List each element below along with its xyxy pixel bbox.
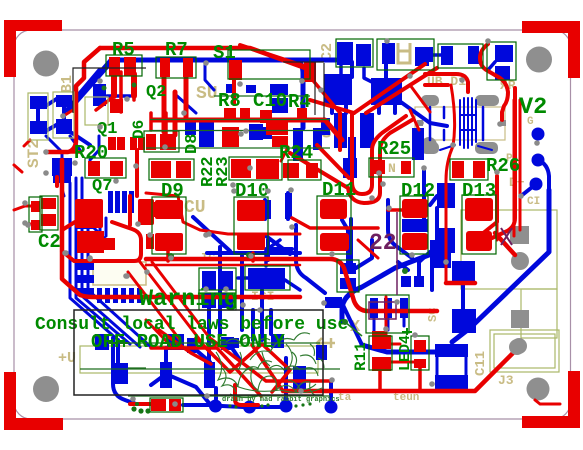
capacitor C2cap pads bbox=[337, 42, 353, 65]
wire red top-left J1 bbox=[24, 108, 76, 146]
pads R24 red bbox=[283, 163, 292, 178]
silk cross pads bbox=[108, 328, 412, 347]
wire blue fan Q1 bbox=[46, 136, 99, 176]
wire U5 blue bbox=[433, 55, 495, 70]
outline R26 bbox=[450, 159, 488, 180]
svg-text:R20: R20 bbox=[74, 142, 108, 164]
gray circle right bbox=[511, 252, 529, 270]
svg-text:C11: C11 bbox=[473, 351, 489, 376]
pads red row2 bbox=[222, 127, 239, 147]
outline D1 bbox=[377, 39, 434, 70]
IC U6 centre bundle blue bbox=[440, 98, 492, 150]
mounting hole bottom-left bbox=[33, 376, 59, 402]
svg-text:N: N bbox=[388, 161, 396, 176]
wire red left drop bbox=[46, 48, 100, 152]
blue bars U8 left bbox=[340, 263, 356, 274]
wire R11-LED4 link bbox=[390, 344, 414, 362]
wire red zigzag bottom bbox=[151, 330, 332, 396]
outline D9 tall bbox=[152, 197, 186, 254]
wire red step D9-D10 bbox=[146, 193, 300, 234]
pad red small Q9 bbox=[372, 331, 386, 338]
diode D12 pad bbox=[402, 199, 428, 218]
svg-text:V2: V2 bbox=[519, 94, 547, 121]
wire R5 stubs bbox=[114, 74, 134, 96]
outline C2 bbox=[29, 197, 42, 232]
wire Q7 red vertical bbox=[62, 160, 300, 297]
gray pads U6 ovals bbox=[421, 95, 439, 106]
keepout box right big bbox=[461, 210, 557, 289]
label KJ tan bbox=[317, 338, 335, 348]
pad Q7 big bbox=[75, 199, 103, 228]
connector J3 boxes bbox=[490, 330, 559, 372]
svg-text:Q2: Q2 bbox=[146, 83, 166, 102]
svg-text:C10: C10 bbox=[253, 90, 287, 112]
svg-text:C2: C2 bbox=[38, 231, 61, 253]
pad D12 blue bbox=[437, 183, 455, 208]
wire S01 red bbox=[130, 385, 258, 405]
pads Q7 red bbox=[41, 198, 56, 209]
wire blue stub C2cap bbox=[341, 66, 372, 82]
label U glyph D1 bbox=[398, 43, 410, 63]
svg-text:SU: SU bbox=[196, 84, 218, 104]
wire red D11-D12 link bbox=[292, 210, 403, 228]
wire C3 links bbox=[332, 62, 447, 126]
wire R20 feed bbox=[46, 150, 80, 154]
outline R5 bbox=[106, 55, 142, 76]
wire blue bottom-left drop bbox=[113, 338, 136, 404]
keepout box warn bbox=[80, 346, 318, 373]
silk art sketch bbox=[216, 333, 324, 398]
svg-text:Q7: Q7 bbox=[92, 177, 112, 196]
silk lines component rows bbox=[146, 96, 330, 148]
resistor R11 pads bbox=[372, 335, 391, 349]
mounting hole bottom-right bbox=[527, 378, 550, 401]
outline D13 tall bbox=[462, 195, 496, 254]
wire TP3 stub bbox=[521, 184, 536, 196]
connector J1 pads top-left bbox=[30, 96, 47, 109]
svg-text:D11: D11 bbox=[322, 179, 356, 201]
pads left mid connector bbox=[52, 158, 72, 176]
resistor R20 pads bbox=[88, 161, 100, 176]
switch S1 pads bbox=[229, 60, 242, 80]
svg-text:J3: J3 bbox=[498, 373, 514, 388]
wire U5 red bbox=[425, 44, 508, 120]
pad blue bottom-right bbox=[452, 309, 476, 333]
mounting hole top-left bbox=[33, 51, 59, 77]
pads D9 red bbox=[231, 159, 251, 178]
wire red bus mid bbox=[152, 120, 342, 140]
pads D8 region blue bbox=[199, 119, 214, 147]
outline IC2 bbox=[199, 268, 236, 293]
via cluster bbox=[97, 78, 103, 84]
pad C4 red big bbox=[77, 231, 104, 253]
wire red link R24 bbox=[281, 147, 288, 161]
pads R13 red pair bbox=[146, 134, 156, 150]
outline D10 tall bbox=[234, 197, 268, 254]
silk art baseline bbox=[80, 369, 340, 396]
wire S1 drop bbox=[234, 45, 304, 104]
svg-text:R23: R23 bbox=[214, 156, 233, 187]
wire blue mid risers bbox=[118, 219, 362, 366]
outline R14 bbox=[149, 159, 194, 180]
outline R20 bbox=[85, 158, 126, 178]
svg-text:OFF ROAD USE ONLY: OFF ROAD USE ONLY bbox=[91, 331, 285, 353]
purple box Q9 bbox=[369, 302, 396, 319]
IC U3 left pins bbox=[76, 221, 94, 229]
resistor R25 pads bbox=[372, 160, 385, 174]
svg-text:R26: R26 bbox=[486, 155, 520, 177]
blue bars row mid bbox=[293, 128, 303, 161]
corner mark bottom-right bbox=[522, 371, 580, 428]
black outline top-left bbox=[73, 68, 146, 113]
wire red main top bbox=[100, 48, 305, 68]
diode D11 pad bbox=[320, 199, 347, 219]
IC body U3 tan outline bbox=[93, 262, 146, 285]
wire red mid drop bbox=[311, 78, 340, 113]
corner mark bottom-left bbox=[4, 372, 63, 430]
wire R7 blue diag bbox=[176, 62, 214, 113]
pad C4 bump bbox=[100, 238, 115, 250]
wire blue LED feed bbox=[362, 345, 437, 352]
outline LED4 bbox=[411, 336, 429, 370]
outline Q7 pads bbox=[40, 196, 58, 230]
svg-text:R4: R4 bbox=[288, 91, 311, 113]
pads Q2 region blue bbox=[270, 84, 288, 95]
pad red left edge bbox=[146, 202, 155, 217]
wire red hairpin mid bbox=[352, 113, 406, 194]
capacitor C2 pads bbox=[31, 201, 40, 212]
svg-text:teun: teun bbox=[393, 392, 419, 404]
pads mid red squares bbox=[320, 233, 349, 251]
wire TP2 stub bbox=[538, 160, 549, 190]
testpoint TP2 bbox=[532, 154, 545, 167]
svg-text:D12: D12 bbox=[401, 180, 435, 202]
resistor R7 pads bbox=[160, 58, 170, 77]
blue rect under R20 bbox=[53, 171, 71, 183]
wire red loop inner bbox=[57, 177, 141, 261]
pads under bus blue bbox=[185, 121, 196, 135]
svg-text:R25: R25 bbox=[377, 138, 411, 160]
wire red LED4 drops bbox=[380, 368, 420, 391]
outline S01 bbox=[150, 398, 183, 412]
pads R14 red pair bbox=[151, 161, 171, 178]
through-hole pad row bottom bbox=[209, 400, 222, 413]
outline R7 bbox=[156, 57, 196, 78]
pads IC2 cluster 2x2 bbox=[202, 271, 216, 290]
outline R25 bbox=[369, 158, 414, 177]
wire red Q9 stub bbox=[385, 297, 388, 338]
resistor R5 pads bbox=[109, 57, 120, 76]
wire red top drop mid bbox=[151, 113, 166, 134]
transistor Q9 pads bbox=[370, 298, 378, 318]
diode D1 pads bbox=[382, 43, 395, 64]
svg-text:R8: R8 bbox=[218, 90, 241, 112]
wire R7 stubs bbox=[164, 77, 186, 135]
wire red left-edge drop bbox=[14, 165, 25, 210]
LED4 pads bbox=[414, 340, 426, 352]
diode D9 pads big bbox=[155, 200, 183, 219]
svg-text:R24: R24 bbox=[279, 142, 313, 164]
outline C2cap bbox=[336, 39, 373, 67]
wire Q9 stubs bbox=[374, 318, 404, 333]
outline U8 bars bbox=[337, 260, 359, 292]
wire C2 stubs bbox=[25, 206, 31, 224]
pads warning-box blue bbox=[95, 334, 109, 350]
testpoint TP3 bbox=[530, 178, 543, 191]
capacitor C3 pads big blue bbox=[324, 74, 352, 105]
outline J1 bbox=[28, 93, 48, 140]
pad Q1 top bbox=[110, 99, 123, 113]
outline IC7 bbox=[245, 266, 290, 290]
outline R24 bbox=[288, 160, 321, 180]
wire red loop left bbox=[62, 150, 137, 230]
mounting hole top-right bbox=[526, 47, 552, 73]
wire red diagonals C3 bbox=[310, 64, 437, 113]
svg-text:Warning: Warning bbox=[139, 286, 238, 313]
keepout box right mid bbox=[521, 289, 557, 338]
black outline C2cap bbox=[283, 62, 324, 118]
IC U3 pins blue mid-left bbox=[108, 191, 113, 213]
diode D13 pad bbox=[465, 198, 493, 221]
svg-text:R11: R11 bbox=[352, 342, 370, 371]
pad blue right-mid bbox=[437, 228, 455, 253]
wire blue bundle vertical left bbox=[61, 160, 152, 348]
wire red hairpin outer bbox=[290, 113, 412, 203]
wire blue bottom connects bbox=[151, 348, 240, 405]
gray square right top bbox=[510, 226, 529, 244]
outline R11 bbox=[369, 336, 392, 370]
silk line top warn bbox=[108, 343, 320, 368]
wire IC7 stubs bbox=[238, 240, 300, 290]
wire red bottom long bbox=[283, 349, 517, 391]
wire red horizontal low-left bbox=[168, 251, 253, 261]
IC7 body blue bbox=[248, 268, 285, 289]
diode D10 pads big bbox=[237, 200, 265, 221]
wire red bottom-left stub bbox=[535, 400, 560, 404]
wire red right verticals bbox=[482, 88, 515, 238]
silk green dots bbox=[342, 319, 348, 325]
wire red right drop long bbox=[358, 85, 520, 283]
wire purple X bbox=[501, 228, 512, 245]
outline R13 bbox=[144, 131, 179, 152]
svg-text:D6: D6 bbox=[130, 120, 148, 139]
svg-text:D13: D13 bbox=[462, 180, 496, 202]
outline S1 bbox=[228, 50, 310, 79]
pad blue Q10 bbox=[452, 261, 475, 283]
svg-text:ta: ta bbox=[338, 392, 352, 404]
pad blue under C2 label bbox=[325, 297, 342, 308]
svg-text:LED4: LED4 bbox=[397, 335, 414, 371]
wire blue right column bbox=[446, 253, 463, 309]
svg-text:R7: R7 bbox=[165, 39, 188, 61]
wire J1 links bbox=[38, 98, 90, 145]
IC U5 pads top-right bbox=[441, 46, 453, 65]
svg-text:CU: CU bbox=[184, 198, 206, 218]
pads red on bus bbox=[224, 108, 236, 122]
svg-text:D8: D8 bbox=[183, 134, 202, 154]
wire blue big right descent bbox=[452, 190, 549, 342]
resistor R26 pads bbox=[452, 161, 464, 178]
wire purple vertical bbox=[396, 212, 398, 295]
outline D12 tall bbox=[400, 196, 428, 254]
wire blue right mid bbox=[424, 170, 437, 290]
testpoint TP1 bbox=[532, 128, 545, 141]
wire blue D9-D10 area bbox=[193, 193, 300, 253]
wire blue staircase mid bbox=[388, 200, 430, 276]
pad gray circle red anchor bbox=[509, 339, 525, 355]
gray circle mid bbox=[421, 137, 437, 153]
wire U8 riser bbox=[342, 220, 372, 268]
gray square right bottom bbox=[511, 310, 529, 328]
svg-text:draun by mad rabbit graphics: draun by mad rabbit graphics bbox=[222, 396, 340, 404]
svg-text:CI: CI bbox=[527, 196, 540, 208]
label S01 bbox=[131, 406, 136, 411]
corner mark top-right bbox=[522, 21, 580, 78]
component S01 pads bbox=[151, 399, 166, 411]
outline U5 bbox=[438, 44, 483, 68]
blue bars mid column bbox=[334, 113, 347, 148]
blue bars U8 right bbox=[401, 276, 411, 287]
capacitor C11 body bbox=[437, 350, 466, 382]
corner mark top-left bbox=[4, 20, 62, 77]
svg-text:S1: S1 bbox=[213, 42, 236, 64]
outline D11 tall bbox=[317, 196, 351, 254]
svg-text:D10: D10 bbox=[235, 180, 269, 202]
outline D9 bbox=[229, 157, 282, 180]
pad S1 right bbox=[304, 62, 316, 82]
svg-text:D9: D9 bbox=[161, 180, 184, 202]
pad red U3 right bbox=[138, 199, 154, 225]
warning box black bbox=[74, 310, 323, 395]
outline Q9 bbox=[366, 295, 409, 333]
svg-text:R5: R5 bbox=[112, 39, 135, 61]
wire blue bus top-left bbox=[68, 60, 112, 110]
wire red cross mid-low bbox=[146, 233, 515, 311]
capacitor C8 pad bbox=[93, 84, 106, 106]
svg-text:22: 22 bbox=[369, 230, 397, 256]
wire red diagonals box bbox=[128, 262, 215, 345]
wire stem TP bottom bbox=[216, 358, 331, 407]
pads D6 red bbox=[130, 137, 137, 150]
pads Q1 red bbox=[108, 137, 116, 150]
